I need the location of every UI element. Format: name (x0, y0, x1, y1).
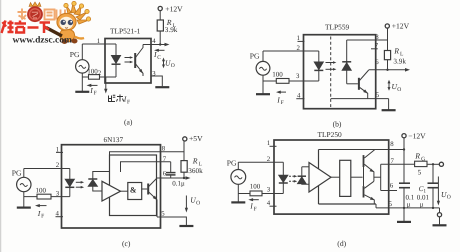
svg-text:F: F (41, 214, 44, 220)
svg-text:6: 6 (375, 59, 379, 66)
svg-text:100: 100 (36, 187, 47, 195)
svg-text:F: F (127, 99, 130, 105)
svg-text:G: G (421, 157, 425, 163)
svg-text:www.dzsc.com: www.dzsc.com (13, 34, 73, 44)
svg-text:3.9k: 3.9k (393, 57, 406, 65)
svg-text:+5V: +5V (189, 134, 203, 143)
svg-text:O: O (171, 63, 175, 69)
svg-text:(d): (d) (337, 239, 346, 248)
svg-text:C: C (157, 55, 161, 61)
svg-text:5: 5 (389, 201, 393, 208)
svg-text:4: 4 (267, 200, 271, 207)
svg-text:7: 7 (391, 158, 395, 165)
svg-text:3: 3 (296, 73, 300, 80)
svg-text:F: F (254, 207, 257, 213)
svg-text:TLP521-1: TLP521-1 (110, 26, 141, 35)
svg-text:6: 6 (390, 182, 394, 189)
svg-text:PG: PG (227, 158, 237, 167)
svg-text:5: 5 (376, 92, 380, 99)
svg-text:R: R (414, 152, 420, 161)
svg-text:R: R (393, 46, 399, 55)
svg-text:6: 6 (163, 171, 167, 178)
svg-text:4: 4 (152, 38, 156, 45)
svg-text:2: 2 (56, 162, 60, 169)
svg-text:μ: μ (407, 200, 411, 208)
svg-text:100: 100 (272, 71, 283, 79)
svg-text:4: 4 (297, 93, 301, 100)
svg-text:6N137: 6N137 (104, 136, 124, 144)
svg-text:1: 1 (267, 140, 270, 147)
svg-text:+12V: +12V (165, 5, 183, 14)
svg-text:(c): (c) (122, 239, 131, 248)
svg-text:F: F (281, 100, 284, 106)
svg-text:3: 3 (267, 187, 271, 194)
svg-text:(a): (a) (124, 118, 133, 127)
svg-text:1: 1 (97, 38, 100, 45)
svg-text:F: F (94, 91, 97, 97)
svg-text:7: 7 (375, 42, 379, 49)
svg-text:100: 100 (250, 183, 261, 191)
svg-text:1: 1 (297, 35, 300, 42)
svg-text:O: O (196, 200, 200, 206)
svg-text:+12V: +12V (392, 22, 410, 31)
svg-text:1: 1 (56, 146, 59, 153)
svg-text:TLP559: TLP559 (325, 23, 350, 32)
svg-text:−12V: −12V (408, 132, 426, 141)
svg-text:PG: PG (12, 169, 22, 178)
svg-text:O: O (397, 87, 401, 93)
svg-text:TLP250: TLP250 (318, 130, 343, 139)
svg-text:2: 2 (267, 156, 271, 163)
svg-text:PG: PG (250, 52, 260, 61)
svg-text:7: 7 (163, 156, 167, 163)
svg-text:5: 5 (161, 211, 165, 218)
svg-text:3: 3 (152, 71, 156, 78)
svg-text:8: 8 (390, 141, 394, 148)
svg-text:0.1μ: 0.1μ (172, 179, 185, 187)
svg-text:5: 5 (418, 169, 422, 177)
svg-text:360k: 360k (188, 167, 203, 175)
svg-text:μ: μ (420, 200, 424, 208)
svg-text:2: 2 (297, 45, 301, 52)
svg-text:PG: PG (70, 50, 80, 59)
svg-text:&: & (130, 185, 137, 194)
svg-text:100: 100 (87, 68, 98, 76)
svg-text:4: 4 (56, 210, 60, 217)
svg-text:(b): (b) (333, 120, 342, 129)
svg-text:2: 2 (98, 70, 102, 77)
svg-text:8: 8 (162, 146, 166, 153)
svg-text:3: 3 (56, 191, 60, 198)
svg-text:R: R (192, 157, 198, 166)
svg-text:O: O (447, 195, 451, 201)
svg-text:8: 8 (375, 34, 379, 41)
svg-text:3.9k: 3.9k (165, 26, 178, 34)
